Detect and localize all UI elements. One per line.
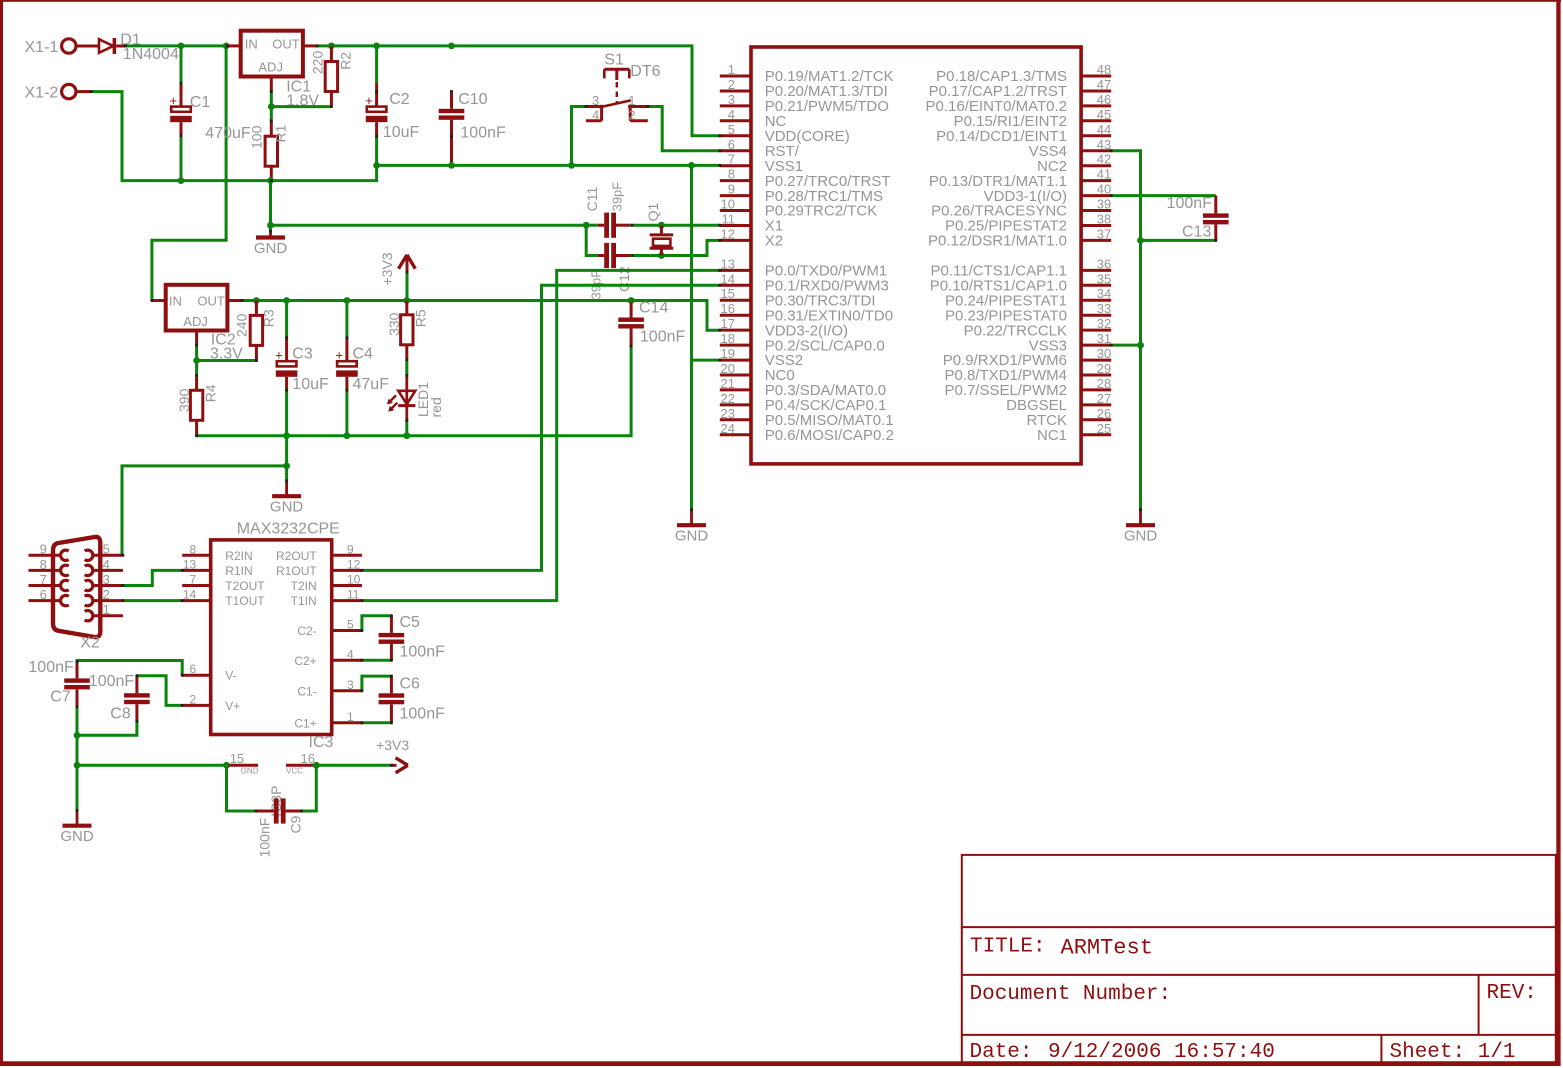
pin R2 bottom	[330, 92, 333, 107]
svg-text:4: 4	[103, 557, 110, 572]
pin IC3.8 R2IN	[182, 542, 252, 563]
svg-text:DT6: DT6	[630, 63, 660, 80]
pin 30 P0.9/RXD1/PWM6	[943, 346, 1111, 369]
svg-text:8: 8	[728, 167, 735, 182]
svg-text:39: 39	[1097, 197, 1111, 212]
wire VSS3 pin31	[1111, 344, 1140, 347]
wire C7 bottom to ground	[76, 707, 79, 811]
pin 3 P0.21/PWM5/TDO	[720, 92, 889, 115]
pin 22 P0.4/SCK/CAP0.1	[720, 391, 887, 414]
junction at C13 bottom	[1137, 237, 1144, 244]
svg-text:Sheet: 1/1: Sheet: 1/1	[1390, 1041, 1516, 1064]
capacitor C5	[379, 616, 405, 661]
junction X1 at Q1	[658, 222, 665, 229]
svg-text:14: 14	[721, 271, 735, 286]
svg-text:33: 33	[1097, 301, 1111, 316]
svg-text:T2IN: T2IN	[291, 579, 317, 593]
junction gnd bus at C4	[344, 432, 351, 439]
junction XTAL ground branch	[267, 222, 274, 229]
svg-text:MAX3232CPE: MAX3232CPE	[237, 521, 340, 538]
resistor R2	[309, 51, 353, 92]
svg-text:7: 7	[40, 572, 47, 587]
svg-text:IN: IN	[169, 293, 182, 308]
wire X2.3 to MAX3232 R1IN	[123, 570, 182, 585]
pin 16 P0.31/EXTIN0/TD0	[720, 301, 893, 324]
svg-text:GND: GND	[675, 528, 709, 545]
junction VSS1 at GND drop	[688, 162, 695, 169]
svg-text:T2OUT: T2OUT	[225, 579, 265, 593]
pin 39 P0.26/TRACESYNC	[931, 197, 1111, 220]
pin 13 P0.0/TXD0/PWM1	[720, 256, 887, 279]
svg-text:28: 28	[1097, 376, 1111, 391]
svg-text:220: 220	[309, 51, 325, 75]
svg-text:GND: GND	[60, 828, 94, 845]
wire C2- to C5 top	[362, 616, 392, 631]
wire C1+ to C6 bottom	[362, 721, 392, 724]
svg-text:C10: C10	[458, 91, 487, 108]
svg-text:18: 18	[721, 331, 735, 346]
pin IC3.2 V+	[182, 692, 240, 713]
pin R3 top	[255, 301, 258, 316]
pin 33 P0.23/PIPESTAT0	[945, 301, 1111, 324]
svg-text:330: 330	[386, 312, 402, 336]
wire RST: S1.1 to ARM pin6	[648, 107, 720, 151]
pin R1 bottom	[270, 166, 273, 180]
wire RXD0: ARM pin14 to MAX3232 R1OUT	[362, 285, 720, 570]
svg-text:100nF: 100nF	[28, 659, 74, 676]
svg-text:100nF: 100nF	[400, 644, 446, 661]
wire C9 left loop	[227, 765, 256, 811]
wire VDD3-1 pin40 to C13 top	[1111, 194, 1216, 197]
pin 43 VSS4	[1029, 137, 1112, 160]
pin IC3.5 C2-	[297, 618, 362, 639]
svg-text:29: 29	[1097, 361, 1111, 376]
pin IC3.13 R1IN	[182, 557, 252, 578]
svg-text:40: 40	[1097, 182, 1111, 197]
pin R5 top	[405, 301, 408, 315]
svg-text:GND: GND	[270, 499, 304, 516]
svg-text:3: 3	[347, 678, 354, 692]
svg-text:13: 13	[183, 557, 197, 571]
wire GND drop center	[690, 165, 693, 510]
svg-text:ARMTest: ARMTest	[1061, 936, 1153, 961]
pin IC3.14 T1OUT	[182, 588, 265, 609]
pin 11 X1	[720, 212, 783, 235]
pin X2.1	[85, 602, 123, 621]
svg-text:C5: C5	[400, 614, 421, 631]
svg-text:C4: C4	[353, 346, 374, 363]
svg-text:3: 3	[103, 572, 110, 587]
wire 3.3V-section ground bus	[197, 346, 631, 436]
pin 8 P0.27/TRC0/TRST	[720, 167, 891, 190]
svg-text:1: 1	[347, 710, 354, 724]
svg-text:1N4004: 1N4004	[123, 46, 179, 63]
svg-text:7: 7	[728, 152, 735, 167]
svg-text:240: 240	[234, 313, 250, 337]
pin IC2 ADJ	[195, 331, 198, 346]
svg-text:C6: C6	[400, 675, 421, 692]
ground GND1	[254, 231, 288, 256]
svg-text:100nF: 100nF	[1167, 195, 1213, 212]
junction 1.8V at R2	[328, 43, 335, 50]
pin IC3.10 T2IN	[291, 573, 362, 594]
pin R1 top	[270, 121, 273, 136]
svg-text:13: 13	[721, 256, 735, 271]
pin 48 P0.18/CAP1.3/TMS	[936, 62, 1111, 85]
wire X1 net: C11 to ARM pin11	[630, 224, 720, 227]
svg-text:ADJ: ADJ	[183, 314, 208, 329]
voltage regulator IC2 (3.3V)	[152, 285, 243, 363]
svg-text:10uF: 10uF	[292, 376, 329, 393]
svg-text:9: 9	[40, 542, 47, 557]
svg-text:42: 42	[1097, 152, 1111, 167]
junction 1.8V at C10	[448, 43, 455, 50]
junction VSS1 at S1	[568, 162, 575, 169]
pin X2.2	[85, 587, 123, 606]
svg-text:V-: V-	[225, 669, 236, 683]
svg-text:IC3: IC3	[309, 734, 334, 751]
pin 40 VDD3-1(I/O)	[984, 182, 1112, 205]
pin 4 NC	[720, 107, 787, 130]
wire V-: C7 to IC3 pin6	[77, 661, 182, 676]
svg-text:46: 46	[1097, 92, 1111, 107]
pin 26 RTCK	[1026, 406, 1111, 429]
pin 27 DBGSEL	[1006, 391, 1111, 414]
svg-text:1: 1	[103, 602, 110, 617]
pin C12 right	[616, 254, 630, 257]
svg-text:100nF: 100nF	[640, 328, 686, 345]
svg-text:S1: S1	[604, 51, 624, 68]
capacitor C10	[439, 92, 465, 166]
pin IC2 OUT	[227, 299, 242, 302]
svg-text:TITLE:: TITLE:	[970, 936, 1046, 959]
junction 3V3 at C3	[283, 297, 290, 304]
pin X2.6	[29, 587, 69, 606]
svg-text:T1IN: T1IN	[291, 594, 317, 608]
svg-text:+3V3: +3V3	[379, 252, 395, 285]
svg-text:X2: X2	[80, 634, 100, 651]
svg-text:22: 22	[721, 391, 735, 406]
junction 3V3 at C4	[344, 297, 351, 304]
pin 12 X2	[720, 226, 783, 249]
svg-text:16: 16	[301, 751, 315, 766]
svg-text:35: 35	[1097, 271, 1111, 286]
connector X2 (DB9)	[53, 537, 100, 652]
pin R3 bottom	[255, 345, 258, 360]
pin 19 VSS2	[720, 346, 803, 369]
svg-text:100nF: 100nF	[400, 706, 446, 723]
svg-text:2: 2	[190, 692, 197, 706]
wire GND drop below C3	[285, 436, 288, 481]
junction gnd bus at C3	[283, 432, 290, 439]
capacitor C9	[256, 798, 303, 857]
svg-text:R3: R3	[261, 309, 277, 327]
svg-text:10uF: 10uF	[383, 124, 420, 141]
svg-text:11: 11	[347, 588, 360, 602]
svg-text:17: 17	[721, 316, 735, 331]
switch S1 (DT6)	[586, 51, 661, 122]
pin 23 P0.5/MISO/MAT0.1	[720, 406, 894, 429]
junction IC3P pin16	[313, 762, 320, 769]
junction at VSS3	[1137, 342, 1144, 349]
capacitor C7	[64, 661, 90, 707]
svg-text:100nF: 100nF	[89, 673, 135, 690]
svg-text:NC1: NC1	[1037, 427, 1067, 444]
svg-text:9/12/2006 16:57:40: 9/12/2006 16:57:40	[1048, 1041, 1275, 1064]
pin X2.8	[29, 557, 69, 576]
junction IC3P pin15	[223, 762, 230, 769]
svg-text:C2+: C2+	[294, 654, 316, 668]
svg-text:44: 44	[1097, 122, 1111, 137]
svg-text:38: 38	[1097, 212, 1111, 227]
junction VIN at C1	[178, 43, 185, 50]
svg-text:5: 5	[347, 618, 354, 632]
junction ADJ2 node	[193, 357, 200, 364]
svg-text:1: 1	[628, 93, 635, 108]
pin IC3.12 R1OUT	[276, 557, 362, 578]
svg-text:47: 47	[1097, 77, 1111, 92]
pin 25 NC1	[1037, 421, 1111, 444]
wire 3.3V rail: IC2 OUT to ARM pin17 VDD3-2	[242, 301, 720, 331]
svg-text:REV:: REV:	[1487, 982, 1537, 1005]
wire S1.3 to VSS1	[572, 107, 587, 166]
pin 37 P0.12/DSR1/MAT1.0	[928, 226, 1111, 249]
capacitor C6	[379, 676, 405, 723]
pin 38 P0.25/PIPESTAT2	[945, 212, 1111, 235]
pin IC2 IN	[152, 299, 166, 302]
svg-text:6: 6	[728, 137, 735, 152]
svg-text:11: 11	[722, 212, 736, 227]
pin IC3P.15 GND	[229, 751, 259, 776]
pin S1.4	[600, 109, 603, 121]
svg-text:10: 10	[721, 197, 735, 212]
svg-text:X1-2: X1-2	[25, 84, 59, 101]
junction 3V3 at R5	[403, 297, 410, 304]
svg-text:+3V3: +3V3	[376, 737, 409, 753]
wire C2+ to C5 bottom	[362, 659, 392, 662]
svg-text:R4: R4	[203, 384, 219, 402]
svg-text:GND: GND	[254, 240, 288, 257]
svg-text:34: 34	[1097, 286, 1111, 301]
svg-text:21: 21	[721, 376, 735, 391]
wire C13 bottom	[1141, 239, 1216, 242]
pin IC3.6 V-	[182, 662, 236, 683]
junction X2 at Q1	[658, 252, 665, 259]
wire IC2 ADJ to R3/R4	[195, 345, 198, 375]
LED LED1 (red)	[387, 376, 444, 421]
wire X2 shell ground	[122, 466, 287, 555]
svg-text:24: 24	[721, 421, 735, 436]
svg-text:2: 2	[728, 77, 735, 92]
pin X2.4	[85, 557, 123, 576]
pin 1 P0.19/MAT1.2/TCK	[720, 62, 894, 85]
svg-text:390: 390	[176, 388, 192, 412]
svg-text:2: 2	[628, 108, 635, 123]
svg-text:R1OUT: R1OUT	[276, 564, 317, 578]
ground GND5	[60, 811, 94, 846]
svg-text:2: 2	[103, 587, 110, 602]
pin X2.7	[29, 572, 69, 591]
pin IC1 OUT	[303, 44, 317, 47]
capacitor C2	[365, 46, 419, 165]
title block frame	[962, 855, 1556, 1063]
resistor R3	[234, 309, 277, 345]
svg-text:C1-: C1-	[297, 684, 316, 698]
svg-text:48: 48	[1097, 62, 1111, 77]
pin 32 P0.22/TRCCLK	[964, 316, 1112, 339]
svg-text:IN: IN	[245, 36, 258, 51]
svg-text:5: 5	[728, 122, 735, 137]
svg-text:26: 26	[1097, 406, 1111, 421]
capacitor C12	[598, 243, 616, 268]
svg-text:Date:: Date:	[970, 1041, 1033, 1064]
svg-text:9: 9	[347, 542, 354, 556]
pin IC3.3 C1-	[297, 678, 362, 699]
svg-text:100nF: 100nF	[256, 818, 272, 858]
capacitor C14	[618, 302, 644, 346]
svg-text:C14: C14	[639, 299, 668, 316]
capacitor C1	[170, 46, 251, 181]
wire C9 right loop	[302, 765, 317, 811]
pin 47 P0.17/CAP1.2/TRST	[929, 77, 1112, 100]
capacitor C4	[335, 301, 389, 436]
pin 6 RST/	[720, 137, 800, 160]
wire VSS2 to ARM pin19	[692, 359, 720, 362]
junction 3V3 at C14	[628, 297, 635, 304]
junction GND bus at C1	[178, 177, 185, 184]
ground GND3	[1124, 510, 1158, 545]
svg-text:6: 6	[40, 587, 47, 602]
svg-text:12: 12	[721, 226, 735, 241]
junction VIN at IC2 branch	[223, 43, 230, 50]
svg-text:GND: GND	[1124, 528, 1158, 545]
pin IC3.4 C2+	[294, 647, 362, 668]
svg-text:T1OUT: T1OUT	[225, 594, 265, 608]
svg-text:red: red	[428, 397, 444, 417]
wire V+: C8 to IC3 pin2	[137, 676, 182, 706]
pin 9 P0.28/TRC1/TMS	[720, 182, 883, 205]
pin 45 P0.15/RI1/EINT2	[954, 107, 1112, 130]
ground GND2	[675, 510, 709, 545]
wire XTAL ground: R1 node to C11/C12	[271, 224, 587, 227]
junction VSS1 at C10	[448, 162, 455, 169]
svg-text:100: 100	[249, 125, 265, 149]
pin IC3.7 T2OUT	[182, 573, 265, 594]
capacitor C13	[1203, 196, 1229, 241]
junction 3V3 at R3	[253, 297, 260, 304]
svg-text:39pF: 39pF	[610, 182, 625, 212]
pin IC1 IN	[227, 44, 241, 47]
svg-text:C13: C13	[1182, 224, 1211, 241]
wire R5 to LED1	[405, 360, 408, 376]
svg-text:23: 23	[721, 406, 735, 421]
wire TXD0: ARM pin13 to MAX3232 T1IN	[362, 270, 720, 600]
svg-text:20: 20	[721, 361, 735, 376]
pin C11 right	[616, 224, 630, 227]
pin R4 top	[195, 376, 198, 391]
IC IC3 MAX3232CPE	[211, 521, 340, 751]
wire C1- to C6 top	[362, 676, 392, 691]
capacitor C11	[598, 213, 616, 238]
pin R5 bottom	[405, 345, 408, 360]
wire VSS4/VSS3 ground: pin43 down to GND	[1111, 151, 1140, 510]
pin 21 P0.3/SDA/MAT0.0	[720, 376, 886, 399]
svg-text:GND: GND	[241, 766, 259, 775]
svg-text:C2: C2	[389, 91, 410, 108]
wire VIN branch to IC2 IN	[152, 46, 226, 301]
svg-text:C3: C3	[292, 346, 313, 363]
wire ground bus to IC3P pin15	[77, 764, 227, 767]
svg-text:4: 4	[347, 647, 354, 661]
wire X2.2 to MAX3232 T1OUT	[123, 599, 182, 602]
junction ADJ node	[268, 103, 275, 110]
pin 34 P0.24/PIPESTAT1	[945, 286, 1111, 309]
svg-text:470uF: 470uF	[205, 125, 251, 142]
svg-text:P0.6/MOSI/CAP0.2: P0.6/MOSI/CAP0.2	[765, 427, 894, 444]
svg-text:7: 7	[190, 573, 197, 587]
svg-text:25: 25	[1097, 421, 1111, 436]
pin IC3.1 C1+	[294, 710, 362, 731]
svg-text:C7: C7	[50, 688, 71, 705]
switch S1 lever	[601, 100, 631, 107]
pin 29 P0.8/TXD1/PWM4	[944, 361, 1111, 384]
svg-text:P0.12/DSR1/MAT1.0: P0.12/DSR1/MAT1.0	[928, 233, 1067, 250]
wire VIN: D1 to IC1 IN	[126, 44, 228, 47]
pin 10 P0.29TRC2/TCK	[720, 197, 877, 220]
wire VSS1 line	[377, 164, 720, 167]
junction VSS1 at C2	[373, 162, 380, 169]
junction C7/C8 ground	[74, 732, 81, 739]
junction ground bus bottom	[74, 762, 81, 769]
capacitor C3	[275, 301, 329, 436]
svg-text:31: 31	[1097, 331, 1111, 346]
wire ADJ node IC1/R1/R2	[270, 92, 273, 121]
pin S1.3	[586, 105, 599, 108]
svg-text:C8: C8	[110, 706, 131, 723]
pin R2 top	[330, 46, 333, 62]
pin 46 P0.16/EINT0/MAT0.2	[926, 92, 1112, 115]
ground GND4	[270, 481, 304, 516]
pin 20 NC0	[720, 361, 795, 384]
svg-text:VCC: VCC	[286, 766, 303, 775]
junction X2 shell branch	[283, 463, 290, 470]
svg-text:R2IN: R2IN	[225, 549, 252, 563]
wire LED1 to GND bus	[405, 421, 408, 436]
svg-text:R2OUT: R2OUT	[276, 549, 317, 563]
svg-text:30: 30	[1097, 346, 1111, 361]
svg-text:8: 8	[40, 557, 47, 572]
wire 1.8V rail: IC1 OUT to ARM pin5 VDD(CORE)	[317, 46, 720, 136]
pin 24 P0.6/MOSI/CAP0.2	[720, 421, 894, 444]
pin 14 P0.1/RXD0/PWM3	[720, 271, 889, 294]
svg-text:100nF: 100nF	[460, 124, 506, 141]
svg-text:X2: X2	[765, 233, 783, 250]
svg-text:9: 9	[728, 182, 735, 197]
pin 31 VSS3	[1029, 331, 1112, 354]
pin R4 bottom	[195, 420, 198, 435]
svg-text:1: 1	[728, 62, 735, 77]
wire GND drop below R1	[269, 181, 272, 232]
svg-text:27: 27	[1097, 391, 1111, 406]
svg-text:37: 37	[1097, 226, 1111, 241]
connector X1-2	[25, 84, 92, 101]
wire C8 bottom to ground	[77, 721, 137, 735]
pin X2.3	[85, 572, 123, 591]
svg-text:4: 4	[592, 108, 599, 123]
svg-text:C1: C1	[190, 94, 211, 111]
svg-text:43: 43	[1097, 137, 1111, 152]
svg-text:19: 19	[721, 346, 735, 361]
